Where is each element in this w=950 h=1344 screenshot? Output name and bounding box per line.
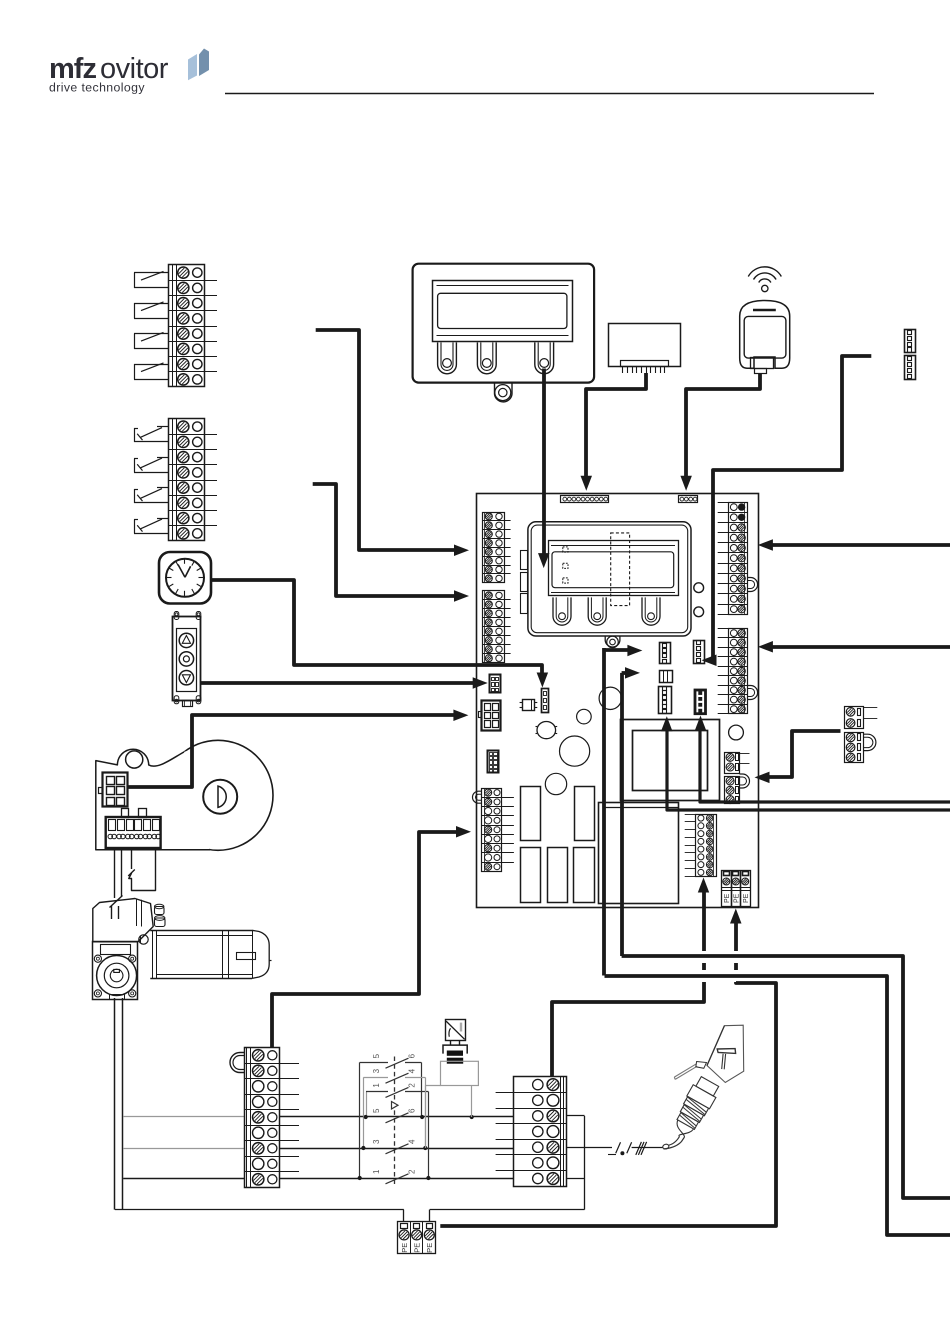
board top header 10-pin [561, 496, 609, 503]
sensor band 1 [447, 1051, 463, 1056]
PE bottom wire [115, 1209, 404, 1211]
board top header 4-pin [679, 496, 698, 503]
jumper loop brake block [740, 774, 750, 788]
switch contact S4 [134, 364, 169, 366]
svg-text:1: 1 [372, 1083, 381, 1088]
board terminal block left lower [483, 591, 505, 663]
board terminal block right upper [729, 503, 748, 615]
svg-text:5: 5 [372, 1053, 381, 1058]
push-button station [173, 617, 201, 701]
display mount tab [495, 383, 513, 402]
wire display to board [542, 369, 546, 561]
board PE terminal block [722, 871, 751, 907]
svg-text:4: 4 [408, 1139, 417, 1144]
motor flange [93, 942, 138, 1000]
board display dashed cursor boxes [563, 547, 568, 552]
header rule [225, 93, 874, 95]
board terminal block motor (9 rows) [482, 789, 502, 872]
radio antenna waves [759, 279, 771, 283]
board connector K3 2x5 [488, 751, 499, 773]
station bottom gland [183, 701, 193, 707]
cam disc [163, 740, 273, 850]
switch contact S1 [134, 272, 169, 274]
cam switch housing plate [96, 744, 210, 850]
board relay K15 [574, 848, 595, 903]
svg-text:3: 3 [372, 1068, 381, 1073]
timer clock symbol [159, 552, 211, 604]
cam terminal strip [106, 817, 161, 848]
radio wire to board [686, 373, 760, 482]
wire X10 to board brake block [761, 731, 841, 777]
sensor bracket [443, 1045, 467, 1054]
cam connector 6-pin [103, 773, 128, 807]
board relay K12 [575, 787, 595, 841]
wire cam unit to board connector [128, 715, 461, 787]
plug-in option module [609, 324, 681, 367]
motor wire L1 [279, 1116, 513, 1118]
external supply block X10 [845, 707, 864, 729]
motor wire to terminal block row 9 [123, 1178, 244, 1180]
board display buttons [553, 597, 571, 625]
switch contact S3 [157, 487, 169, 489]
wire station to board [201, 681, 481, 685]
logo mark parallelograms [188, 54, 197, 80]
switch contact S4 [157, 518, 169, 520]
board connector K2 6-pin (cam target) [482, 701, 501, 731]
board circle above brake block [729, 725, 744, 740]
svg-text:3: 3 [372, 1139, 381, 1144]
switch contact S2 [157, 457, 169, 459]
cam-to-motor wires [114, 848, 116, 898]
board display module housing [528, 522, 691, 636]
wire from terminal X1 area to board input 1 [316, 330, 462, 550]
connector header J-B [905, 356, 916, 380]
svg-text:2: 2 [408, 1169, 417, 1174]
motor wires to terminal block (gray) [123, 1116, 244, 1118]
limit switch contacts [360, 1062, 388, 1064]
junction dots switch block [364, 1115, 368, 1119]
switch contact S1 [157, 426, 169, 428]
wire C to board connector M3 [667, 724, 950, 810]
svg-text:6: 6 [408, 1108, 417, 1113]
board capacitor C4 [560, 736, 590, 766]
CEE plug T slot [717, 1049, 735, 1054]
photo sensor symbol [446, 1020, 466, 1041]
svg-text:4: 4 [408, 1068, 417, 1073]
svg-text:1: 1 [372, 1169, 381, 1174]
cam mount ear hole [126, 751, 143, 768]
svg-text:PE: PE [425, 1243, 434, 1253]
board display indicator LEDs [694, 583, 704, 593]
wire mains to right block lower [765, 645, 950, 649]
wire connector J-B to board [713, 356, 871, 660]
cam strip wire staples [122, 809, 129, 818]
X12 right-side wires [567, 1115, 585, 1117]
board jumper J1 (clock target) [542, 689, 549, 713]
board terminal block aux (8 rows) [696, 815, 717, 877]
wire F board aux block to X12 [698, 878, 709, 893]
station button stop [179, 652, 193, 666]
jumper loop right upper block [747, 578, 758, 592]
svg-text:drive technology: drive technology [49, 81, 145, 95]
motor cable [114, 998, 116, 1210]
jumper loop X11 [230, 1053, 244, 1073]
wire B board to page edge [620, 673, 624, 956]
sensor band 2 [447, 1058, 463, 1064]
board display side tabs [521, 551, 528, 570]
board display mount tab [605, 636, 620, 647]
switch contact S3 [134, 333, 169, 335]
board relay K11 [521, 787, 541, 841]
board capacitor C5 [545, 773, 566, 794]
cable interruption hatches [608, 1154, 616, 1156]
board capacitor C2 [599, 687, 621, 709]
radio connector [751, 358, 774, 369]
PE terminal block X13 [398, 1222, 436, 1254]
terminal block X12 (7 rows) [514, 1077, 567, 1187]
control board outline [477, 494, 759, 908]
board component X-osc [523, 700, 535, 711]
limit switch bracket wires [359, 1062, 361, 1178]
cam thermal loop wire [131, 848, 133, 869]
board capacitor C1 [537, 722, 556, 739]
jumper loop motor block [473, 791, 482, 803]
svg-text:6: 6 [408, 1053, 417, 1058]
motor top bolts [155, 907, 165, 915]
board terminal block right lower [729, 629, 748, 714]
board connector K1 (station target) [490, 675, 501, 693]
terminal block X11 (9 rows) [245, 1048, 280, 1188]
CEE plug cable gland [696, 1077, 719, 1096]
svg-text:PE: PE [413, 1243, 422, 1253]
wire from terminal X2 area to board input 2 [313, 484, 462, 596]
motor cylinder [150, 930, 252, 932]
board small block right (brake) [725, 753, 740, 774]
board connector M1 4-pin [660, 643, 671, 664]
svg-text:2: 2 [408, 1083, 417, 1088]
board transformer [621, 720, 720, 801]
station button down [179, 671, 193, 685]
wire A board to page edge [602, 648, 606, 976]
display buttons [438, 342, 457, 373]
board terminal block left upper [483, 513, 505, 583]
motor wire L2 [279, 1148, 513, 1150]
wire G PE chain [730, 909, 742, 924]
wire mains to right block upper [765, 543, 950, 547]
sensor wires [441, 1061, 479, 1085]
board capacitor C3 [577, 709, 592, 724]
svg-text:5: 5 [372, 1108, 381, 1113]
motor gearbox body [93, 899, 153, 942]
station button up [179, 633, 193, 647]
module wire to board [586, 373, 646, 482]
board connector M5 4-pin black [695, 690, 706, 714]
board connector M3 6-pin [659, 687, 672, 714]
clock hands [178, 565, 185, 578]
switch contact S2 [134, 303, 169, 305]
board relay K14 [548, 848, 568, 903]
svg-text:PE: PE [400, 1243, 409, 1253]
cam keyhole [203, 780, 237, 814]
jumper loop X10 [864, 734, 876, 750]
display terminal housing [413, 264, 594, 383]
wire X11 to board motor block [272, 832, 465, 1047]
svg-text:PE: PE [743, 893, 750, 903]
CEE plug latch lever [674, 1064, 696, 1077]
board display dashed region [611, 533, 630, 606]
board relay K13 [521, 848, 541, 903]
display window [433, 281, 573, 342]
board display window [549, 541, 679, 596]
terminal block X2 (8-pole with switches) [169, 419, 205, 541]
cable to plug [632, 1147, 663, 1149]
board connector M4 4-pin [694, 641, 705, 664]
motor wire L3 [279, 1178, 513, 1180]
wire clock to board jumper [211, 580, 542, 680]
board relay M2 [660, 671, 673, 683]
sensor stems [450, 1040, 452, 1045]
CEE plug body [707, 1025, 744, 1082]
svg-text:PE: PE [734, 893, 741, 903]
terminal block X1 (8-pole with switches) [169, 265, 205, 387]
board power module [599, 803, 679, 904]
connector header J-A [905, 330, 916, 353]
radio remote handset [740, 301, 790, 369]
limit switch actuator dashed line [394, 1057, 396, 1185]
wire E to board connector M5 [700, 723, 950, 802]
svg-text:PE: PE [724, 893, 731, 903]
motor gland [139, 935, 148, 944]
